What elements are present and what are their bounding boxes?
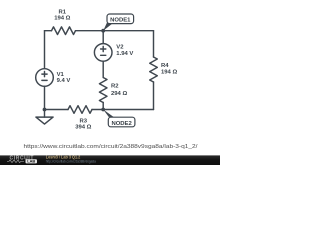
node NODE2 pointer wedge: [103, 110, 114, 118]
wire bottom-left horizontal: [45, 109, 69, 111]
resistor R2: [99, 78, 107, 103]
svg-text:R2: R2: [111, 83, 119, 89]
node NODE2 label box: [108, 117, 135, 127]
node NODE1 pointer wedge: [103, 22, 112, 31]
wire R2 bottom: [102, 103, 104, 110]
wire top-left horizontal: [45, 30, 52, 32]
footer logo LAB box: [26, 159, 38, 163]
svg-text:194 Ω: 194 Ω: [54, 16, 70, 22]
svg-text:R4: R4: [161, 63, 169, 69]
resistor R3: [68, 106, 92, 114]
svg-text:NODE2: NODE2: [111, 121, 132, 127]
svg-text:V1: V1: [57, 72, 65, 78]
svg-text:R3: R3: [80, 118, 88, 124]
resistor R4: [150, 57, 158, 82]
wire V2 top: [102, 31, 104, 44]
svg-text:394 Ω: 394 Ω: [75, 125, 91, 131]
svg-text:9.4 V: 9.4 V: [57, 78, 71, 84]
svg-text:1.94 V: 1.94 V: [116, 51, 133, 57]
ground: [44, 110, 46, 118]
junction node top (V2/NODE1): [101, 29, 105, 33]
voltage source V1: [36, 69, 54, 87]
wire bottom-middle horizontal: [92, 109, 154, 111]
voltage source V2: [94, 44, 112, 62]
svg-text:V2: V2: [116, 45, 124, 51]
wire right vertical top: [153, 31, 155, 57]
junction node bottom left (ground): [43, 108, 47, 112]
svg-text:294 Ω: 294 Ω: [111, 91, 127, 97]
junction node bottom middle (NODE2): [101, 108, 105, 112]
node NODE1 label box: [107, 14, 134, 24]
svg-text:NODE1: NODE1: [110, 18, 131, 24]
footer logo zigzag: [7, 160, 24, 163]
wire V2 bottom: [102, 61, 104, 77]
wire left vertical: [44, 31, 46, 69]
wire top-right horizontal: [76, 30, 154, 32]
wire V1 bottom: [44, 86, 46, 109]
resistor R1: [52, 27, 76, 35]
svg-text:https://www.circuitlab.com/cir: https://www.circuitlab.com/circuit/2a388…: [24, 144, 198, 150]
svg-text:R1: R1: [59, 9, 67, 15]
wire right vertical bottom: [153, 82, 155, 110]
svg-text:LAB: LAB: [27, 159, 35, 164]
svg-text:http://circuitlab.com/c/2a388v: http://circuitlab.com/c/2a388v9sga8a: [46, 159, 97, 163]
svg-text:194 Ω: 194 Ω: [161, 69, 177, 75]
